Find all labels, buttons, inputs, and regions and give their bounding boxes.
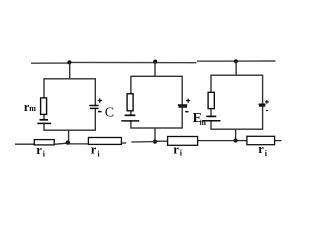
label plus of C [98, 100, 102, 102]
label minus of cell 2 capacitor [185, 111, 188, 113]
battery gap cell 3 [209, 117, 213, 120]
resistor rm body [41, 98, 47, 115]
resistor cell 2 left body [127, 94, 133, 111]
wire loop box of cell 2 [131, 76, 182, 128]
battery B3 long plate [202, 120, 220, 122]
battery B1 short plate [40, 119, 49, 121]
wire from ri 3 through junction 3 to ri 4 [198, 140, 247, 142]
capacitor gap cell 3 [260, 104, 265, 107]
resistor ri 2 body [88, 138, 121, 145]
wire from junction 2 to ri 3 [155, 140, 168, 142]
label plus of cell 2 capacitor [186, 100, 190, 102]
label minus of C [98, 111, 102, 113]
wire from ri 1 to junction [54, 143, 67, 144]
label minus of cell 3 capacitor [266, 110, 268, 112]
wire loop box of cell 3 [211, 75, 263, 129]
node junction dot 1 [67, 60, 71, 64]
capacitor gap cell 2 [180, 105, 185, 108]
svg-text:r: r [36, 143, 42, 157]
node junction dot 2 [153, 60, 157, 64]
svg-text:m: m [200, 118, 207, 127]
capacitor C bottom plate [90, 107, 99, 109]
node junction dot bottom 1 [66, 140, 70, 144]
battery B2 long plate [121, 120, 139, 122]
wire feed from rail to cell 3 top [235, 61, 237, 76]
wire stub right of ri 4 [275, 140, 282, 142]
battery B1 long plate [37, 122, 51, 124]
svg-text:m: m [29, 104, 36, 113]
wire stub right of ri 2 [122, 142, 126, 144]
battery gap cell 1 (white break in left edge) [42, 121, 46, 123]
wire bottom left lead [15, 143, 34, 145]
wire feed from rail to cell 2 top [154, 62, 156, 77]
battery B2 short plate [125, 114, 136, 116]
wire loop box of cell 1 [44, 79, 95, 130]
resistor ri 4 body [247, 136, 275, 144]
wire top rail left segment [31, 62, 70, 64]
wire feed cell 1 bottom to rail [68, 130, 70, 143]
capacitor cell 3 bottom plate [259, 105, 265, 107]
svg-text:r: r [173, 142, 179, 156]
capacitor cell 3 top plate [259, 103, 266, 105]
resistor ri 1 body [34, 140, 54, 145]
svg-text:r: r [91, 143, 97, 157]
label plus of cell 3 capacitor [265, 101, 269, 103]
wire top rail right segment [197, 60, 276, 62]
node junction dot bottom 3 [234, 138, 238, 142]
capacitor C top plate [89, 105, 98, 107]
capacitor cell 2 top plate [178, 104, 187, 106]
node junction dot bottom 2 [153, 140, 157, 144]
wire feed cell 2 bottom to rail [154, 128, 156, 142]
battery B3 short plate [206, 115, 216, 117]
resistor ri 3 body [168, 137, 198, 146]
capacitor cell 2 bottom plate [179, 106, 188, 108]
battery gap cell 2 [129, 116, 133, 120]
svg-text:C: C [105, 106, 114, 121]
svg-text:r: r [258, 142, 264, 156]
resistor cell 3 left body [208, 92, 214, 108]
wire feed from rail to cell 1 top [69, 63, 71, 80]
wire feed cell 3 bottom to rail [235, 129, 237, 140]
capacitor gap cell 1 (white break in right edge) [93, 106, 98, 108]
node junction dot 3 [234, 59, 238, 63]
wire from junction to ri 2 [68, 143, 88, 145]
wire rail segment to junction 2 [131, 141, 155, 143]
